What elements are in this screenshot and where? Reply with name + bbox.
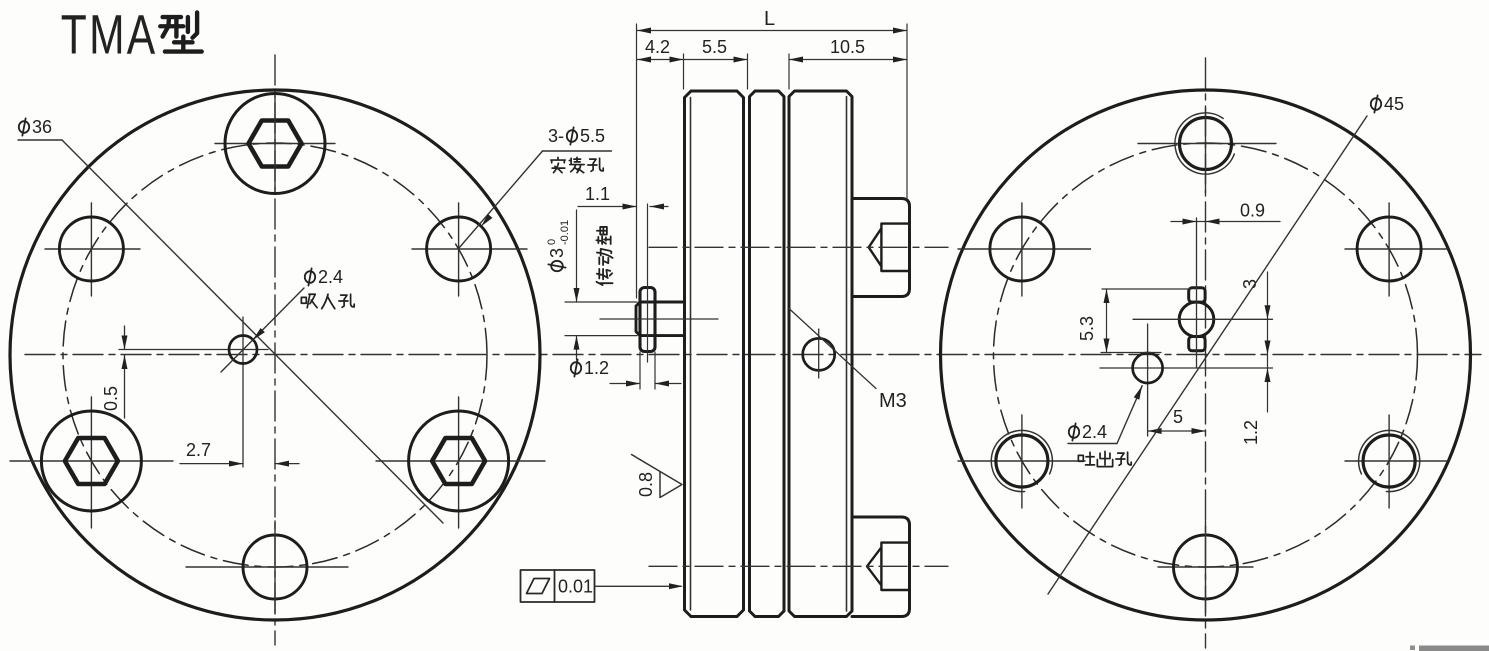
upper-right plain hole	[412, 203, 527, 296]
extension line left (L/4.2/1.1)	[636, 24, 638, 298]
svg-text:5.5: 5.5	[702, 37, 727, 57]
left view vertical centerline	[274, 55, 276, 645]
discharge hole (phi 2.4)	[1100, 324, 1273, 436]
flatness leader	[595, 585, 682, 587]
svg-text:L: L	[764, 8, 775, 30]
slab3 inner chamfer line	[846, 97, 848, 612]
M3 hole circle	[803, 338, 835, 370]
dimension 2.7	[180, 463, 299, 465]
dimension phi1.2	[610, 352, 681, 389]
bottom-right gray bar	[1419, 646, 1489, 651]
suction hole (phi 2.4)	[119, 317, 268, 467]
right view bolt circle (dashed)	[994, 143, 1418, 567]
svg-text:2.4: 2.4	[318, 267, 343, 287]
svg-text:3-: 3-	[548, 126, 564, 146]
svg-text:5: 5	[1173, 407, 1183, 427]
top screw axis centerline	[649, 246, 948, 248]
dimension 1.1	[578, 206, 668, 208]
svg-text:5.3: 5.3	[1077, 316, 1097, 341]
lower-right threaded hole	[1345, 415, 1447, 508]
svg-text:3: 3	[547, 248, 567, 258]
top hex socket screw C1	[215, 94, 335, 194]
dimension 0.5	[124, 326, 126, 418]
svg-text:0: 0	[546, 239, 558, 245]
top threaded hole	[1138, 113, 1276, 174]
label phi2.4 discharge with leader	[1068, 384, 1145, 466]
main horizontal centerline	[25, 354, 1481, 356]
label 3-phi5.5 mounting holes with leader	[459, 126, 612, 248]
slab 3 (rear cover)	[789, 91, 852, 617]
svg-text:4.2: 4.2	[645, 37, 670, 57]
svg-text:0.01: 0.01	[558, 577, 593, 597]
bottom screw axis centerline	[649, 565, 948, 567]
svg-text:36: 36	[32, 117, 52, 137]
shaft end view circle	[1179, 302, 1214, 337]
svg-text:10.5: 10.5	[830, 37, 865, 57]
M3 hole vertical crosshair	[818, 329, 820, 378]
dimension 5.5	[684, 59, 748, 61]
slab1 inner chamfer line	[690, 98, 692, 611]
dimension 5.3	[1101, 289, 1191, 353]
svg-text:2.7: 2.7	[186, 440, 211, 460]
label phi45 with diameter leader	[1048, 94, 1404, 594]
M3 leader	[789, 309, 876, 389]
bottom plain hole	[1158, 535, 1253, 599]
dimension 0.9	[1171, 221, 1280, 223]
svg-text:0.9: 0.9	[1240, 201, 1265, 221]
upper-right plain hole	[1345, 203, 1447, 296]
right view outer circle	[941, 90, 1471, 620]
svg-text:45: 45	[1384, 94, 1404, 114]
upper-left plain hole	[958, 203, 1091, 296]
left view bolt circle (dashed)	[63, 143, 487, 567]
extension line right (L/10.5)	[906, 24, 908, 199]
label phi2.4 suction with leader	[221, 267, 354, 372]
right view vertical centerline	[1205, 58, 1207, 648]
dimension L	[637, 30, 907, 32]
svg-text:M3: M3	[879, 390, 907, 412]
left view outer circle	[10, 90, 540, 620]
top screw head box	[852, 199, 910, 297]
svg-text:5.5: 5.5	[580, 126, 605, 146]
label drive-shaft (rotated)	[596, 227, 612, 285]
shaft crosshair	[1196, 218, 1198, 368]
dimension 4.2	[637, 59, 684, 61]
bottom plain hole	[186, 535, 348, 599]
lower-right hex socket screw	[376, 397, 545, 528]
pin centerline	[647, 204, 649, 362]
bottom screw hex socket	[867, 543, 909, 590]
slab 2 (middle plate)	[750, 91, 785, 617]
slab 1 (front cover)	[685, 91, 744, 617]
cross pin through shaft	[640, 288, 655, 352]
svg-text:-0.01: -0.01	[559, 220, 571, 245]
svg-text:1.2: 1.2	[584, 358, 609, 378]
solid centerline segments at hole centers	[275, 96, 1206, 614]
svg-text:TMA: TMA	[61, 3, 158, 66]
drive shaft body	[636, 302, 685, 336]
bottom screw head box	[852, 517, 910, 617]
dimension phi3 tol	[565, 210, 637, 360]
svg-text:0.5: 0.5	[101, 386, 121, 411]
svg-text:1.2: 1.2	[1241, 420, 1261, 445]
flatness tolerance frame 0.01	[521, 570, 595, 602]
extension lines row2	[683, 54, 685, 89]
svg-text:1.1: 1.1	[585, 184, 610, 204]
upper-left plain hole	[45, 203, 140, 296]
lower-left hex socket screw	[10, 397, 173, 528]
dimension 10.5	[789, 59, 907, 61]
shaft axis line	[600, 318, 718, 320]
top screw hex socket	[869, 224, 909, 271]
dimension 5	[1148, 430, 1206, 432]
surface roughness symbol 0.8	[632, 455, 683, 498]
pin end tabs	[1189, 288, 1205, 302]
lower-left threaded hole	[958, 415, 1085, 508]
svg-text:0.8: 0.8	[636, 472, 656, 497]
dimensions 3 and 1.2 (vertical chain)	[1267, 272, 1269, 412]
label phi36 with leader	[18, 117, 443, 523]
svg-text:2.4: 2.4	[1082, 422, 1107, 442]
